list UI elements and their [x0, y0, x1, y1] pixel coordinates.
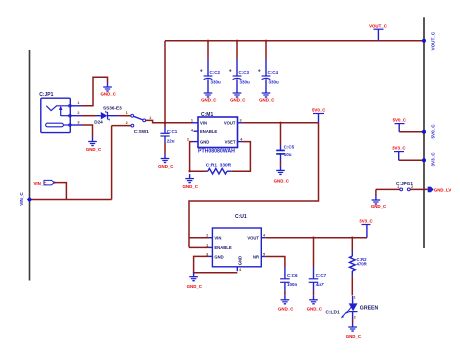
diode D24 SS36-E3 (schottky): [94, 106, 122, 125]
svg-text:1: 1: [206, 243, 208, 247]
svg-text:GND_C: GND_C: [187, 284, 203, 289]
wire M1 VOUT to 5V0 node: [243, 122, 319, 124]
port GND_LV: [428, 187, 452, 193]
svg-text:1: 1: [354, 295, 356, 299]
svg-text:1: 1: [77, 101, 79, 105]
svg-text:VOUT: VOUT: [247, 235, 259, 240]
wire SW1 throw2 to VIN_C riser: [112, 125, 131, 127]
wire ground leg to R1: [190, 170, 206, 172]
wire R2 to LED: [351, 276, 353, 295]
svg-text:VIN_C: VIN_C: [34, 181, 48, 186]
junction rail/C2: [207, 40, 209, 42]
svg-text:GND_C: GND_C: [278, 306, 294, 311]
ground below C6: [278, 295, 294, 311]
svg-text:NR: NR: [253, 254, 259, 259]
wire C5 to ground: [280, 161, 282, 166]
wire U1 NR to C6: [266, 257, 285, 268]
svg-text:ENABLE: ENABLE: [214, 245, 231, 250]
svg-text:GND_C: GND_C: [230, 98, 246, 103]
svg-text:5V0_C: 5V0_C: [312, 107, 326, 112]
resistor R1 330R: [206, 162, 232, 174]
svg-text:330u: 330u: [211, 79, 222, 84]
svg-text:D24: D24: [94, 120, 103, 125]
ground below C2: [201, 89, 217, 103]
wire R1 to VSET: [232, 142, 251, 172]
svg-text:C:C7: C:C7: [316, 273, 327, 278]
svg-text:22u: 22u: [167, 138, 175, 143]
capacitor C5 10u: [276, 123, 294, 161]
ground below C1: [158, 154, 174, 169]
wire U1 VOUT to 3V3 node: [266, 237, 367, 239]
wire C7 to ground: [313, 291, 315, 295]
junction rail/C4: [265, 40, 267, 42]
wire 5V0 node to U1 VIN: [189, 123, 319, 248]
svg-text:GND_C: GND_C: [346, 334, 362, 339]
svg-text:GND_C: GND_C: [201, 98, 217, 103]
svg-text:C:R1 330R: C:R1 330R: [206, 162, 232, 168]
ground top of JP1: [101, 83, 117, 97]
svg-text:4u7: 4u7: [315, 282, 324, 287]
svg-text:VIN: VIN: [200, 120, 207, 125]
svg-text:ENABLE: ENABLE: [200, 129, 217, 134]
wire LED to ground: [352, 319, 354, 323]
svg-text:C:JP1: C:JP1: [39, 92, 53, 98]
svg-text:470R: 470R: [357, 261, 368, 266]
svg-text:PTH08080WAH: PTH08080WAH: [198, 149, 235, 155]
svg-text:C:U1: C:U1: [235, 214, 247, 220]
svg-text:SS36-E3: SS36-E3: [103, 106, 122, 111]
right power bus line: [423, 17, 425, 248]
junction R1/ground: [188, 170, 190, 172]
svg-text:10u: 10u: [284, 152, 292, 157]
svg-text:GND: GND: [214, 254, 223, 259]
wire 3V3_C port to bus: [399, 159, 424, 161]
wire port VIN_C to net: [55, 183, 67, 200]
svg-text:GND_C: GND_C: [274, 179, 290, 184]
wire top rail VOUT_C: [165, 40, 424, 42]
ground below JPG1: [371, 196, 387, 210]
svg-text:GND_C: GND_C: [158, 164, 174, 169]
svg-text:C:C1: C:C1: [167, 129, 178, 134]
svg-text:5V0_C: 5V0_C: [431, 124, 436, 139]
svg-text:VOUT_C: VOUT_C: [431, 31, 436, 50]
svg-text:GND_C: GND_C: [183, 184, 199, 189]
capacitor C4 (electrolytic, 330u): [258, 41, 279, 89]
wire to JPG1 pin1: [376, 188, 400, 190]
ground below C7: [307, 295, 323, 311]
svg-text:3: 3: [240, 118, 242, 122]
junction input node (riser/C1): [164, 122, 167, 125]
capacitor C7 4u7: [309, 238, 327, 291]
capacitor C6 100n: [280, 267, 298, 291]
port 3V3_C at U1 output: [359, 218, 373, 237]
svg-text:1: 1: [191, 118, 193, 122]
left sheet line: [29, 50, 31, 281]
svg-text:VOUT: VOUT: [224, 120, 236, 125]
port 3V3_C at bus: [392, 145, 406, 160]
svg-text:2: 2: [77, 111, 79, 115]
capacitor C1 22u: [160, 123, 177, 144]
svg-text:C:C3: C:C3: [239, 70, 250, 75]
svg-text:2: 2: [187, 138, 189, 142]
svg-text:GND_C: GND_C: [86, 147, 102, 152]
wire JP1 pin3 to ground: [82, 125, 93, 137]
wire 3V3 node to R2: [351, 238, 353, 251]
svg-text:3V3_C: 3V3_C: [431, 152, 436, 167]
svg-text:C:LD1: C:LD1: [326, 309, 340, 315]
port 5V0_C at M1 output: [312, 107, 326, 122]
svg-text:C:C4: C:C4: [268, 70, 279, 75]
svg-text:+: +: [258, 69, 261, 75]
svg-text:VSET: VSET: [225, 139, 236, 144]
svg-text:GND: GND: [200, 139, 209, 144]
svg-text:5: 5: [263, 252, 265, 256]
junction R2 tap: [351, 237, 353, 239]
svg-text:+: +: [229, 69, 232, 75]
svg-text:GND_C: GND_C: [101, 91, 117, 96]
svg-text:VIN: VIN: [214, 235, 221, 240]
wire VIN_C horizontal to sheet line: [30, 199, 112, 201]
svg-text:GND: GND: [237, 256, 242, 265]
svg-text:C:C2: C:C2: [210, 70, 221, 75]
svg-text:1: 1: [397, 185, 399, 189]
ground below C5: [274, 166, 290, 184]
port VOUT_C: [369, 23, 388, 41]
svg-text:1: 1: [149, 116, 151, 120]
wire SW1 common to input node: [146, 120, 193, 122]
svg-text:3: 3: [77, 120, 79, 124]
ground below JP1: [86, 137, 102, 152]
wire C1 to ground: [164, 143, 166, 155]
junction C7 tap: [312, 237, 314, 239]
ground below C4: [259, 89, 275, 103]
wire D24 cathode to SW1: [118, 115, 130, 117]
ground below LD1: [346, 323, 362, 340]
port VIN_C: [34, 180, 56, 186]
svg-text:GND_C: GND_C: [259, 98, 275, 103]
svg-text:VOUT_C: VOUT_C: [369, 23, 388, 28]
regulator module M1 PTH08080WAH: [193, 112, 243, 155]
capacitor C3 (electrolytic, 330u): [229, 41, 250, 89]
wire JPG1 left to ground: [375, 189, 377, 195]
svg-text:330u: 330u: [269, 79, 280, 84]
svg-text:C:C5: C:C5: [284, 144, 295, 149]
wire JP1 pin1 to ground: [82, 77, 108, 106]
svg-text:GREEN: GREEN: [360, 306, 379, 312]
svg-text:2: 2: [206, 234, 208, 238]
ground below U1: [187, 272, 203, 289]
svg-text:2: 2: [126, 121, 128, 125]
svg-text:3V3_C: 3V3_C: [359, 218, 373, 223]
svg-text:330u: 330u: [240, 79, 251, 84]
svg-text:C:M1: C:M1: [201, 112, 213, 118]
regulator U1: [209, 214, 266, 271]
connector JP1 (power jack): [39, 92, 82, 133]
svg-text:GND_C: GND_C: [307, 306, 323, 311]
junction rail/C3: [236, 40, 238, 42]
jumper JPG1: [396, 181, 413, 191]
ground below R1 (M1 GND): [183, 174, 199, 189]
svg-text:VIN_C: VIN_C: [19, 192, 24, 206]
LED LD1 GREEN: [326, 296, 379, 319]
wire JPG1 pin2 to bus/GND_LV: [410, 188, 427, 190]
wire JP1 pin2 to D24 anode: [82, 115, 96, 117]
resistor R2 470R: [350, 251, 368, 276]
svg-text:C:C6: C:C6: [287, 273, 298, 278]
svg-text:GND_LV: GND_LV: [434, 187, 452, 192]
wire U1 GND to ground: [194, 256, 238, 272]
wire C6 to ground: [284, 291, 286, 295]
svg-text:5V0_C: 5V0_C: [393, 117, 407, 122]
wire M1 GND down: [190, 142, 193, 172]
wire 5V0_C port to bus: [399, 131, 424, 133]
wire riser rail to input node: [164, 41, 166, 123]
junction 5V0_C/bus: [422, 130, 426, 134]
capacitor C2 (electrolytic, 330u): [200, 41, 221, 89]
port 5V0_C at bus: [393, 117, 407, 131]
wire VIN_C riser: [111, 126, 113, 200]
svg-text:1: 1: [126, 111, 128, 115]
ground below C3: [230, 89, 246, 103]
junction 3V3_C/bus: [422, 158, 426, 162]
svg-text:2: 2: [411, 185, 413, 189]
svg-text:GND_C: GND_C: [371, 204, 387, 209]
junction C5 tap: [279, 122, 281, 124]
svg-text:2: 2: [354, 316, 356, 320]
junction rail/bus: [422, 39, 426, 43]
junction VIN_C sheet entry: [27, 197, 32, 202]
wire into U1 VIN: [189, 237, 209, 239]
svg-text:3V3_C: 3V3_C: [392, 145, 406, 150]
svg-text:100n: 100n: [287, 282, 298, 287]
svg-text:+: +: [200, 69, 203, 75]
svg-text:C:SW1: C:SW1: [134, 129, 149, 134]
switch SW1: [131, 114, 149, 133]
wire into U1 ENABLE: [189, 246, 209, 248]
